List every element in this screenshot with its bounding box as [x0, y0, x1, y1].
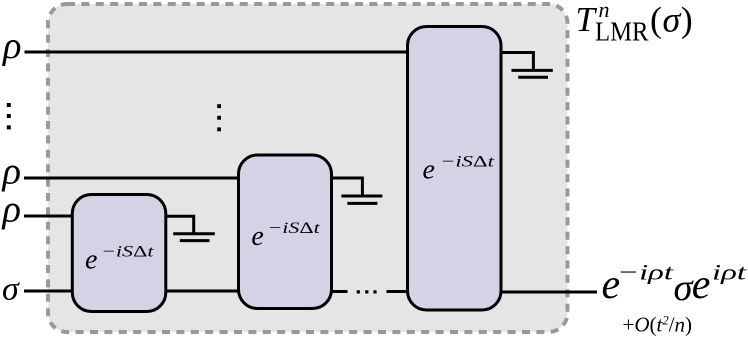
svg-text:ρ: ρ	[2, 25, 21, 67]
svg-text:ρ: ρ	[2, 150, 21, 192]
svg-text:−iSΔt: −iSΔt	[101, 243, 154, 260]
svg-text:LMR: LMR	[595, 17, 649, 47]
svg-text:(σ): (σ)	[650, 0, 693, 39]
svg-text:e: e	[251, 221, 263, 252]
svg-text:−iSΔt: −iSΔt	[440, 153, 495, 170]
svg-text:σ: σ	[2, 271, 20, 308]
svg-text:e: e	[85, 244, 97, 275]
svg-text:+O(t2/n): +O(t2/n)	[623, 312, 692, 336]
svg-text:ρ: ρ	[2, 189, 21, 231]
svg-text:−iρt: −iρt	[617, 259, 674, 284]
svg-text:−iSΔt: −iSΔt	[267, 220, 320, 237]
svg-text:e: e	[692, 262, 711, 308]
svg-text:e: e	[423, 154, 435, 185]
svg-text:iρt: iρt	[712, 259, 747, 284]
